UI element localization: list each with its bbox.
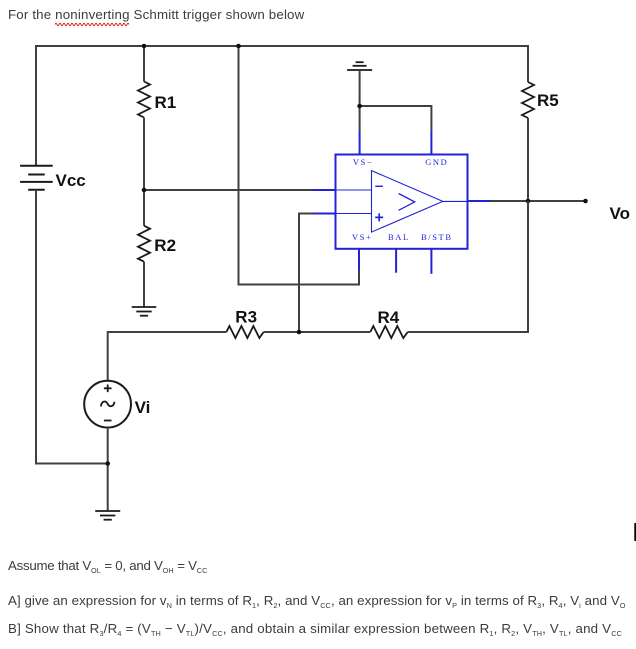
wire output node down to R4 [408, 201, 528, 332]
wire Vi top to R3 [108, 332, 227, 381]
title text [8, 7, 304, 22]
source Vi plus mark [104, 385, 112, 393]
label Vo [610, 204, 630, 223]
svg-text:B/STB: B/STB [421, 232, 453, 242]
op-amp triangle [372, 171, 443, 233]
wire ground node across to GND pin [360, 106, 432, 131]
op-amp pin stub VS- (top left) [359, 131, 361, 155]
resistor R4 [370, 326, 407, 338]
source Vi minus mark [104, 420, 112, 422]
op-amp pin stub GND (top right) [430, 131, 432, 155]
node ground junction [357, 104, 362, 109]
source Vi circle [84, 381, 131, 428]
svg-text:R5: R5 [537, 91, 559, 110]
wire top ground to VS- and GND pins [359, 70, 361, 131]
wire battery bottom down and right to Vi ground node [36, 190, 108, 464]
node R1/R2 divider junction [142, 188, 147, 193]
wire Vi bottom to ground [107, 428, 109, 512]
wire node to inverting input [144, 189, 313, 191]
svg-text:BAL: BAL [388, 232, 410, 242]
op-amp minus sign [375, 185, 383, 187]
ground below R2 [132, 307, 157, 316]
battery Vcc [20, 166, 53, 190]
op-amp label B/STB [421, 232, 453, 242]
svg-text:Vi: Vi [135, 398, 151, 417]
op-amp label BAL [388, 232, 410, 242]
source Vi sine mark [101, 402, 115, 407]
wire left branch from top rail to battery [35, 45, 37, 166]
op-amp pin stub inverting input [313, 189, 336, 191]
op-amp pin stub VS+ (bottom left) [358, 249, 360, 270]
op-amp inner lead noninverting [336, 213, 372, 215]
svg-text:R4: R4 [378, 308, 400, 327]
svg-text:VS−: VS− [353, 157, 373, 167]
label Vi [135, 398, 151, 417]
op-amp strobe chevron [399, 194, 415, 211]
label R3 [235, 307, 257, 326]
wire R1 bottom to node [143, 118, 145, 191]
label R5 [537, 91, 559, 110]
label R2 [154, 236, 176, 255]
op-amp plus sign [375, 213, 383, 221]
wire R2 bottom to ground [143, 262, 145, 307]
wire top rail [36, 45, 528, 47]
resistor R3 [226, 326, 263, 338]
label R4 [378, 308, 400, 327]
ground below Vi [95, 511, 120, 520]
wire Vcc rail to VS+ pin [239, 45, 360, 285]
op-amp inner lead output [443, 200, 468, 202]
node output terminal dot [583, 199, 588, 204]
ground above op-amp [347, 62, 372, 70]
svg-text:Vcc: Vcc [56, 171, 86, 190]
label Vcc [56, 171, 86, 190]
wire R5 bottom to output node [527, 118, 529, 201]
node output junction [526, 199, 531, 204]
op-amp pin stub B/STB [430, 249, 432, 274]
op-amp label GND [425, 157, 448, 167]
bottom text line B [8, 621, 622, 636]
spellcheck squiggle under "noninverting" [55, 23, 129, 26]
node Vi ground junction [105, 461, 110, 466]
label R1 [155, 93, 177, 112]
op-amp U1 body [336, 155, 468, 249]
wire R2 top [143, 190, 145, 226]
wire R5 top from rail [527, 45, 529, 82]
node R3/R4 junction [297, 330, 302, 335]
node top rail R1 junction [142, 44, 147, 49]
op-amp label VS- [353, 157, 373, 167]
op-amp pin stub output [468, 200, 491, 202]
wire noninverting input from R3/R4 node [299, 214, 313, 333]
wire R1 branch top [143, 46, 145, 82]
resistor R5 [522, 82, 534, 118]
svg-text:R3: R3 [235, 307, 257, 326]
op-amp pin stub noninverting input [313, 213, 336, 215]
svg-text:VS+: VS+ [352, 232, 372, 242]
op-amp pin stub BAL [395, 249, 397, 273]
node top rail VS+ branch junction [236, 44, 241, 49]
text cursor mark at right edge [634, 523, 636, 541]
svg-text:Vo: Vo [610, 204, 630, 223]
op-amp label VS+ [352, 232, 372, 242]
wire between R3 and R4 [264, 331, 371, 333]
wire output to Vo terminal [490, 200, 586, 202]
op-amp inner lead inverting [336, 189, 372, 191]
resistor R1 [138, 82, 150, 118]
resistor R2 [138, 226, 150, 262]
svg-text:GND: GND [425, 157, 448, 167]
svg-text:R2: R2 [154, 236, 176, 255]
bottom text line A [8, 593, 626, 608]
bottom text line 1 [8, 558, 207, 573]
svg-text:R1: R1 [155, 93, 177, 112]
